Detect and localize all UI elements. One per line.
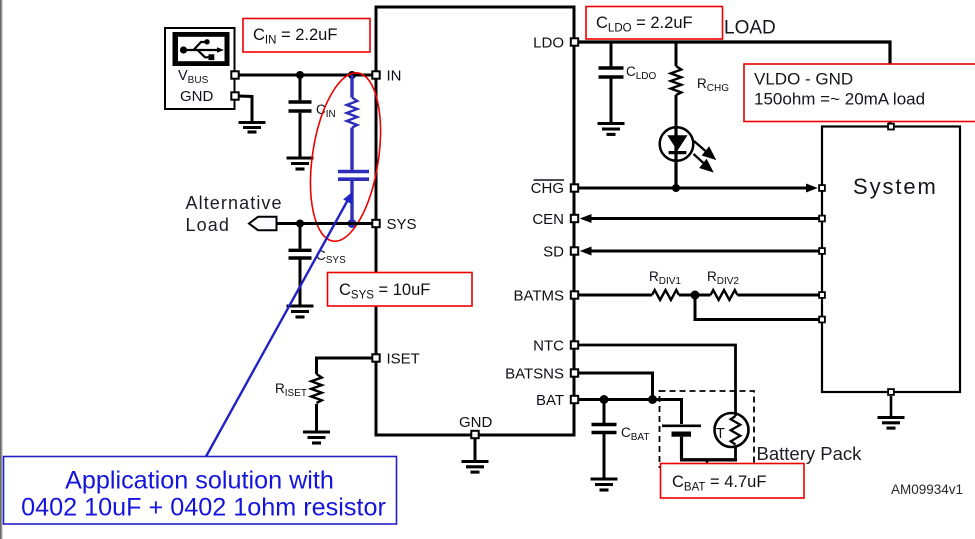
USB logo [173, 32, 230, 66]
LED emission arrows [694, 141, 715, 171]
pin USB GND [231, 92, 238, 99]
pin GND [471, 431, 478, 438]
wire USB GND drop [239, 96, 252, 122]
wire LDO to LOAD and System [577, 42, 890, 124]
pin SYS [372, 220, 379, 227]
wire CHG to System with arrow [577, 187, 807, 190]
capacitor CBAT [592, 400, 617, 479]
pin SD [571, 247, 578, 254]
pin NTC [571, 341, 578, 348]
svg-text:T: T [716, 426, 725, 442]
svg-text:BATSNS: BATSNS [505, 366, 564, 383]
svg-text:SYS: SYS [387, 216, 417, 233]
callout box CBAT value [661, 464, 805, 499]
wire BATMS segment 2 [679, 294, 711, 297]
svg-text:Application solution with: Application solution with [65, 467, 334, 495]
ground RISET [303, 432, 330, 443]
wire CEN from System with arrow [590, 217, 820, 220]
IC U1 body [376, 7, 574, 435]
resistor RDIV2 [711, 290, 738, 300]
pin ISET [372, 354, 379, 361]
svg-text:0402 10uF + 0402 1ohm resistor: 0402 10uF + 0402 1ohm resistor [21, 494, 386, 522]
callout box CLDO value [586, 7, 723, 40]
svg-text:Battery Pack: Battery Pack [757, 443, 863, 464]
pin System divider [819, 317, 825, 323]
pin LDO [571, 38, 578, 45]
svg-text:ISET: ISET [387, 351, 420, 368]
wire ISET [317, 357, 376, 360]
annotation box blue [4, 457, 397, 525]
pin System BATMS [819, 292, 825, 298]
pin System top [888, 124, 894, 130]
callout box CSYS value [328, 273, 473, 307]
pin BAT [571, 396, 578, 403]
wire VBUS to IN [235, 74, 375, 77]
svg-text:Alternative: Alternative [186, 193, 283, 213]
pin IN [372, 71, 379, 78]
svg-text:IN: IN [387, 68, 402, 85]
thermistor T1 [715, 413, 749, 460]
svg-text:CEN: CEN [532, 211, 564, 228]
wire SD from System with arrow [590, 250, 820, 253]
resistor RISET [311, 357, 322, 432]
callout box CIN value [243, 19, 370, 53]
wire BAT [577, 400, 682, 425]
System block body [822, 127, 960, 393]
ground CBAT [591, 479, 618, 490]
wire BATMS segment 3 to System [737, 294, 820, 297]
node junction LED/CHG [672, 184, 680, 192]
capacitor CSYS [289, 224, 312, 306]
pin USB VBUS [231, 71, 238, 78]
ground CSYS [287, 306, 314, 317]
svg-text:GND: GND [180, 88, 214, 105]
node junction BAT/BATSNS [648, 395, 657, 404]
svg-text:System: System [853, 174, 938, 199]
svg-text:150ohm =~ 20mA load: 150ohm =~ 20mA load [754, 90, 925, 109]
svg-text:SD: SD [543, 244, 564, 261]
node junction BAT/CBAT [600, 395, 609, 404]
pin System SD [819, 248, 825, 254]
pin System CEN [819, 216, 825, 222]
resistor RDIV1 [652, 290, 679, 300]
ground CLDO [598, 124, 625, 135]
wire NTC to thermistor [577, 345, 736, 414]
capacitor CIN [289, 75, 312, 157]
battery BT1 [662, 426, 737, 465]
ground GND pin of IC [462, 437, 489, 472]
resistor RCHG [671, 42, 682, 129]
pin System CHG [819, 185, 825, 191]
wire BATSNS [577, 373, 653, 400]
highlight ellipse red [300, 68, 390, 246]
wire BATMS segment 1 [577, 294, 652, 297]
node junction blue branch top [348, 71, 356, 79]
wire Alternative Load to SYS [270, 222, 375, 225]
resistor blue 1ohm [347, 75, 358, 170]
svg-text:VLDO - GND: VLDO - GND [754, 70, 853, 89]
connector alternative load pointer [249, 217, 277, 230]
pin CEN [571, 215, 578, 222]
LED D1 [660, 127, 694, 188]
svg-text:GND: GND [459, 414, 493, 431]
svg-text:Load: Load [186, 215, 230, 235]
svg-text:LDO: LDO [533, 35, 564, 52]
ground CIN [287, 158, 314, 169]
capacitor blue 10uF [338, 172, 369, 224]
pin System bottom [888, 389, 894, 395]
svg-text:LOAD: LOAD [724, 18, 776, 39]
wire divider tap to System [695, 295, 820, 320]
svg-text:AM09934v1: AM09934v1 [891, 482, 963, 497]
node junction SYS/CSYS [296, 220, 304, 228]
battery pack dashed box [660, 391, 755, 467]
USB connector J1 box [165, 28, 235, 109]
annotation arrow blue [206, 192, 352, 457]
callout box VLDO note [744, 64, 975, 122]
node blue junction on SYS [348, 219, 357, 228]
capacitor CLDO [599, 42, 624, 123]
node junction VBUS/CIN [296, 71, 304, 79]
svg-text:CHG: CHG [531, 180, 564, 197]
pin BATMS [571, 291, 578, 298]
ground USB [239, 123, 266, 133]
node junction divider tap [691, 291, 700, 300]
ground System [878, 396, 905, 428]
pin BATSNS [571, 369, 578, 376]
svg-text:NTC: NTC [533, 338, 564, 355]
svg-text:BAT: BAT [536, 392, 564, 409]
svg-text:BATMS: BATMS [513, 288, 564, 305]
pin CHG [571, 184, 578, 191]
